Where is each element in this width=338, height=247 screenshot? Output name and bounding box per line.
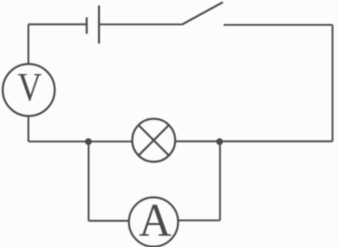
battery B1 short plate (negative) — [86, 17, 88, 33]
ammeter A circle — [129, 197, 178, 246]
wire battery to switch — [99, 23, 182, 25]
battery B1 long plate (positive) — [98, 6, 100, 44]
wire left vertical lower (voltmeter to bottom wire) — [27, 116, 29, 142]
lamp L1 cross diagonal 2 — [139, 125, 169, 155]
wire left vertical upper (corner to voltmeter) — [27, 24, 29, 64]
wire top-left horizontal (corner to battery) — [28, 23, 86, 25]
node left junction dot — [85, 138, 92, 145]
wire bottom-left horizontal (lamp to corner) — [28, 141, 132, 143]
voltmeter label V — [17, 65, 42, 109]
wire right branch horizontal (ammeter to corner) — [178, 219, 220, 221]
wire left branch horizontal (to ammeter) — [89, 220, 129, 222]
wire bottom-right horizontal (corner to lamp) — [175, 140, 332, 142]
wire right vertical — [332, 25, 334, 141]
wire right branch vertical (up to dot) — [219, 142, 221, 221]
switch S1 open blade — [182, 2, 223, 24]
lamp L1 circle — [132, 119, 175, 162]
voltmeter V circle — [3, 64, 55, 116]
wire switch to top-right corner — [224, 24, 333, 26]
lamp L1 cross diagonal 1 — [139, 125, 169, 155]
node right junction dot — [216, 138, 223, 145]
ammeter label A — [139, 194, 172, 246]
wire left branch vertical (dot down) — [88, 142, 90, 221]
svg-text:A: A — [139, 194, 172, 246]
svg-text:V: V — [17, 65, 42, 109]
